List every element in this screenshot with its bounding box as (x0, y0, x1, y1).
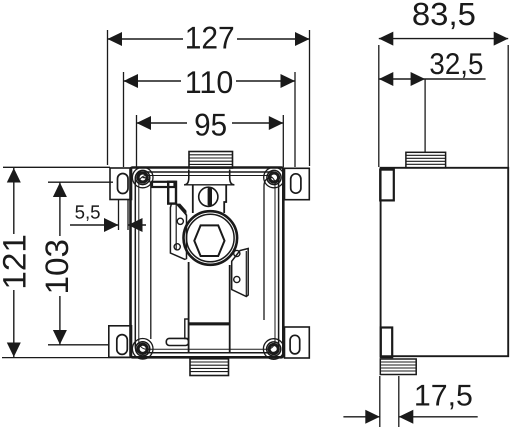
svg-text:103: 103 (39, 239, 75, 295)
svg-text:5,5: 5,5 (75, 203, 101, 224)
svg-text:83,5: 83,5 (412, 0, 476, 32)
svg-text:121: 121 (0, 234, 33, 290)
svg-text:95: 95 (194, 107, 227, 143)
svg-text:32,5: 32,5 (429, 48, 483, 81)
svg-text:110: 110 (185, 64, 234, 100)
svg-text:17,5: 17,5 (414, 380, 473, 413)
svg-text:127: 127 (185, 20, 235, 56)
